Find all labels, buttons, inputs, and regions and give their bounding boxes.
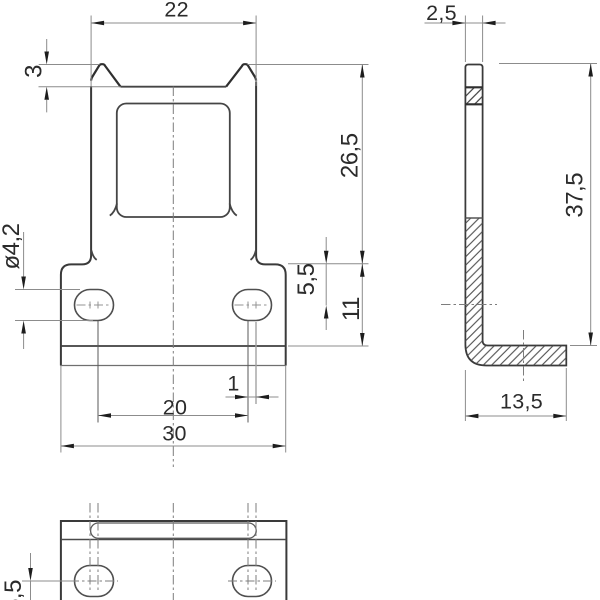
svg-text:ø4,2: ø4,2: [0, 223, 25, 269]
svg-text:20: 20: [163, 396, 188, 420]
svg-text:5,5: 5,5: [293, 263, 320, 295]
svg-text:1: 1: [227, 372, 239, 396]
svg-text:22: 22: [164, 0, 189, 21]
svg-text:37,5: 37,5: [562, 173, 589, 218]
svg-text:11: 11: [338, 297, 365, 321]
svg-text:26,5: 26,5: [336, 133, 363, 178]
svg-text:5,5: 5,5: [0, 580, 27, 600]
svg-text:30: 30: [162, 422, 187, 446]
svg-text:2,5: 2,5: [426, 1, 457, 25]
svg-text:13,5: 13,5: [500, 390, 543, 414]
svg-text:3: 3: [21, 65, 48, 78]
